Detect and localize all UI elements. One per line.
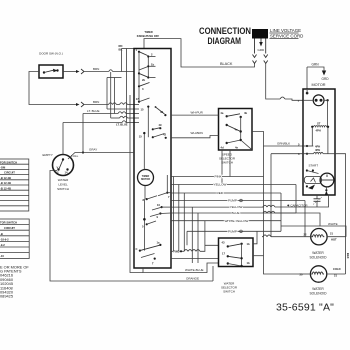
wire outside timer left xyxy=(130,95,143,273)
svg-text:-B 12-4B: -B 12-4B xyxy=(0,181,11,185)
wire pink xyxy=(171,175,264,179)
label WATER SELECTOR SWITCH xyxy=(221,282,238,294)
svg-text:HOT: HOT xyxy=(331,238,337,242)
wire yellow xyxy=(171,183,296,187)
svg-text:RED: RED xyxy=(217,191,224,195)
wire cold solenoid right xyxy=(326,273,345,275)
wire door switch left loop xyxy=(29,72,99,108)
svg-text:-18-9-2: -18-9-2 xyxy=(0,237,9,241)
label water solenoid cold xyxy=(309,287,327,296)
timer contact 1-2 xyxy=(136,48,156,58)
svg-text:LT. BLUE: LT. BLUE xyxy=(116,123,128,127)
svg-text:4PH: 4PH xyxy=(315,148,320,152)
svg-text:WATER: WATER xyxy=(312,251,324,255)
svg-text:2b: 2b xyxy=(142,78,145,82)
svg-text:BLK: BLK xyxy=(346,253,350,259)
wire white (service cord right conductor down to motor) xyxy=(266,64,303,101)
timer box xyxy=(134,49,171,269)
svg-text:PUMP: PUMP xyxy=(228,229,240,233)
wire lt blue 2 xyxy=(63,121,139,127)
wire black (service cord to timer) xyxy=(144,39,255,67)
motor internal top xyxy=(306,90,309,94)
svg-text:DOOR SW (N.O.): DOOR SW (N.O.) xyxy=(39,52,63,56)
table 1 xyxy=(0,159,29,211)
label LINE VOLTAGE SERVICE CORD xyxy=(270,28,304,39)
svg-text:43: 43 xyxy=(160,110,163,114)
water selector switch xyxy=(219,238,254,267)
svg-text:22: 22 xyxy=(304,233,307,237)
wire cold solenoid left xyxy=(303,273,311,275)
svg-text:LINE VOLTAGE: LINE VOLTAGE xyxy=(270,28,301,33)
wire gray xyxy=(83,148,134,153)
svg-text:BLUE: BLUE xyxy=(232,211,240,215)
wire hot solenoid right xyxy=(327,236,346,238)
wire white-yellow xyxy=(171,219,281,223)
svg-text:4PH: 4PH xyxy=(316,129,321,133)
svg-text:4d: 4d xyxy=(221,146,224,150)
svg-text:ST: ST xyxy=(317,122,321,126)
svg-text:DIAGRAM: DIAGRAM xyxy=(208,36,242,47)
svg-text:GRAY: GRAY xyxy=(89,148,97,152)
timer contact 5 xyxy=(142,218,156,229)
svg-text:-OM: -OM xyxy=(0,166,6,170)
timer contact 7 xyxy=(158,192,171,199)
timer contact 1b xyxy=(139,62,156,70)
motor terminal 5 xyxy=(298,143,320,149)
wire blue xyxy=(171,211,296,215)
svg-text:1a: 1a xyxy=(157,241,160,245)
bundle risers left xyxy=(174,177,205,264)
timer contact 8 xyxy=(143,196,158,202)
wire water level top xyxy=(62,123,64,155)
patent text xyxy=(0,264,29,298)
vertical riser x296 xyxy=(295,185,297,214)
svg-text:49: 49 xyxy=(159,123,162,127)
svg-text:BRN: BRN xyxy=(93,100,99,104)
svg-text:LT. BLUE: LT. BLUE xyxy=(87,109,99,113)
label RD BK xyxy=(119,44,123,52)
speed selector switch xyxy=(219,109,253,151)
svg-text:10: 10 xyxy=(157,203,160,207)
svg-text:SWITCH: SWITCH xyxy=(223,290,235,294)
svg-text:MOTOR: MOTOR xyxy=(311,83,325,87)
wire motor run to bundle y207 xyxy=(262,195,329,207)
wire yellow 2 xyxy=(171,205,264,209)
svg-text:WH-PUR: WH-PUR xyxy=(191,111,204,115)
svg-text:EMPTY: EMPTY xyxy=(43,153,53,157)
timer contact 3 xyxy=(138,83,150,91)
timer contact 10 xyxy=(152,203,171,210)
motor ST 4PH xyxy=(311,122,329,146)
label water solenoid hot xyxy=(309,251,327,259)
wire brn into timer xyxy=(85,103,140,105)
svg-text:-B: -B xyxy=(0,232,3,236)
svg-text:LEVEL: LEVEL xyxy=(58,183,68,187)
svg-text:35-6591 "A": 35-6591 "A" xyxy=(276,302,334,314)
svg-text:4PH: 4PH xyxy=(315,145,320,149)
svg-text:SOLENOID: SOLENOID xyxy=(309,255,327,259)
svg-text:1b: 1b xyxy=(247,242,250,246)
svg-text:20: 20 xyxy=(300,273,303,277)
ground lead arrow xyxy=(258,39,266,53)
svg-text:WATER: WATER xyxy=(58,178,69,182)
svg-text:CIRCUIT: CIRCUIT xyxy=(4,226,15,230)
motor start circle xyxy=(320,173,334,187)
svg-text:14: 14 xyxy=(65,171,68,175)
svg-text:YELLOW: YELLOW xyxy=(230,205,243,209)
svg-text:TOR SWITCH: TOR SWITCH xyxy=(0,221,17,225)
svg-text:YELLOW: YELLOW xyxy=(214,183,227,187)
motor start switch xyxy=(304,164,321,184)
svg-text:-B 12-4B: -B 12-4B xyxy=(0,176,11,180)
motor box xyxy=(303,89,335,195)
svg-text:15: 15 xyxy=(141,108,144,112)
svg-text:SWITCH: SWITCH xyxy=(57,187,69,191)
wire speed selector to motor 5 xyxy=(252,132,303,147)
label SPEED SELECTOR SWITCH xyxy=(219,153,236,165)
line conductor connectors (chevrons) xyxy=(253,39,268,64)
svg-text:GRD: GRD xyxy=(258,48,266,52)
svg-text:BLACK: BLACK xyxy=(220,62,233,66)
svg-text:C: C xyxy=(136,247,138,251)
svg-text:V: V xyxy=(57,166,59,170)
svg-text:GRN: GRN xyxy=(312,63,320,67)
svg-text:RD: RD xyxy=(119,44,123,48)
svg-text:MOTOR: MOTOR xyxy=(141,178,150,181)
wire hot solenoid left xyxy=(262,235,311,237)
wire rd vertical xyxy=(121,49,123,72)
svg-text:43: 43 xyxy=(222,241,225,245)
svg-text:PUMP: PUMP xyxy=(228,199,240,203)
svg-text:1b: 1b xyxy=(247,261,250,265)
svg-text:COLD: COLD xyxy=(333,267,341,271)
svg-text:START: START xyxy=(309,164,319,168)
timer contact C xyxy=(136,245,160,252)
wire speed selector down to cold solenoid xyxy=(264,146,304,274)
wire blk right edge xyxy=(335,154,350,274)
svg-text:FOR SWITCH: FOR SWITCH xyxy=(0,160,17,164)
timer internal buses xyxy=(139,52,167,251)
timer contact 15 xyxy=(141,106,157,112)
svg-text:GRN/BLK: GRN/BLK xyxy=(277,142,290,146)
wire ladder xyxy=(107,72,122,118)
svg-text:WHITE-YELLOW: WHITE-YELLOW xyxy=(225,219,249,223)
svg-text:-9-2: -9-2 xyxy=(0,243,5,247)
wire pump 1 xyxy=(171,199,305,203)
wire lt blue down to full xyxy=(68,114,84,160)
svg-text:4a: 4a xyxy=(220,111,223,115)
svg-text:-10: -10 xyxy=(0,254,4,258)
water level switch xyxy=(53,155,74,176)
door switch DOOR SW (N.O.) xyxy=(39,52,63,79)
wire pump 2 xyxy=(187,229,281,233)
svg-text:CIRCUIT: CIRCUIT xyxy=(4,171,15,175)
wire y213 xyxy=(263,211,320,226)
wire bk vertical xyxy=(122,49,135,123)
svg-text:SWITCH: SWITCH xyxy=(221,161,233,165)
svg-text:KNOB-PUSH OFF: KNOB-PUSH OFF xyxy=(137,34,160,38)
svg-text:089425: 089425 xyxy=(0,294,13,299)
wire orange loop left xyxy=(50,171,213,282)
timer contact 43 xyxy=(156,107,167,116)
vertical riser x271 xyxy=(270,154,272,237)
table 2 xyxy=(0,219,29,259)
timer contact 17 xyxy=(136,97,150,103)
wire fwd to water selector xyxy=(171,245,219,253)
wire water selector right xyxy=(253,231,257,244)
wire red xyxy=(171,191,281,195)
timer contact 2b xyxy=(138,72,156,82)
timer contact 42 xyxy=(139,132,167,139)
timer contact 49 xyxy=(152,123,162,130)
svg-text:4e: 4e xyxy=(235,146,238,150)
svg-text:12: 12 xyxy=(56,171,59,175)
svg-text:15: 15 xyxy=(139,135,142,139)
wire white-blue xyxy=(143,263,219,273)
capacitor xyxy=(287,195,322,207)
motor start arrow contact xyxy=(306,185,315,190)
svg-text:1b: 1b xyxy=(151,62,154,66)
svg-text:FULL: FULL xyxy=(71,154,79,158)
timer label xyxy=(137,30,160,38)
svg-text:SOLENOID: SOLENOID xyxy=(309,291,327,295)
svg-text:GRD: GRD xyxy=(322,77,330,81)
wire white to hot solenoid xyxy=(281,193,346,237)
svg-text:21: 21 xyxy=(330,232,333,236)
svg-text:FWD: FWD xyxy=(174,250,180,254)
timer contact 1a xyxy=(157,241,162,246)
svg-text:PINK: PINK xyxy=(215,175,223,179)
svg-text:WH-BRN: WH-BRN xyxy=(191,131,203,135)
vertical riser x305 xyxy=(304,201,306,237)
svg-text:17: 17 xyxy=(222,252,225,256)
svg-text:4c: 4c xyxy=(235,128,238,132)
label WATER LEVEL SWITCH xyxy=(57,178,69,191)
timer contact T xyxy=(141,254,156,266)
title CONNECTION DIAGRAM xyxy=(199,26,251,47)
motor ground xyxy=(307,63,329,89)
svg-text:4b: 4b xyxy=(244,111,247,115)
svg-text:-B 12-4B: -B 12-4B xyxy=(0,186,11,190)
svg-text:BRN: BRN xyxy=(93,67,99,71)
svg-text:ORANGE: ORANGE xyxy=(186,277,199,281)
svg-text:17: 17 xyxy=(136,97,139,101)
wire brn door switch right with connector xyxy=(63,67,134,74)
hot water solenoid xyxy=(304,229,338,245)
wire timer to water selector lower xyxy=(171,258,219,260)
motor bottom arrow xyxy=(325,187,328,195)
motor overload protector xyxy=(298,95,329,154)
svg-text:42: 42 xyxy=(163,133,166,137)
timer contact 9 xyxy=(150,212,171,218)
svg-text:WHITE-BLUE: WHITE-BLUE xyxy=(185,268,204,272)
svg-text:SERVICE CORD: SERVICE CORD xyxy=(270,33,303,38)
timer motor xyxy=(138,170,154,186)
svg-text:WATER: WATER xyxy=(312,287,324,291)
service cord plug xyxy=(252,29,268,39)
wire wh-pur xyxy=(171,111,219,116)
motor terminal 3 xyxy=(298,148,335,156)
wire speed selector bottom to pink xyxy=(229,150,231,177)
wire row2 y109 xyxy=(107,108,139,110)
svg-text:WHITE: WHITE xyxy=(328,222,338,226)
wire row4 y118 xyxy=(111,116,139,118)
wire lt blue 1 xyxy=(83,109,139,114)
wire wh-brn xyxy=(171,131,219,138)
svg-text:TIMER: TIMER xyxy=(144,30,152,34)
cold water solenoid xyxy=(300,266,341,282)
